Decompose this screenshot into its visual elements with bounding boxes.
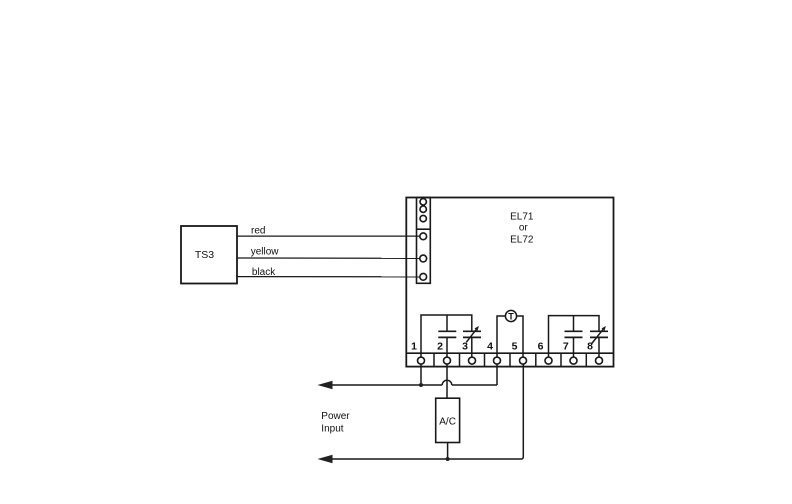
svg-text:EL72: EL72	[510, 235, 534, 246]
svg-text:black: black	[252, 267, 276, 278]
svg-text:or: or	[519, 222, 529, 233]
svg-text:8: 8	[587, 341, 593, 353]
svg-text:EL71: EL71	[510, 212, 534, 223]
svg-text:TS3: TS3	[195, 249, 214, 261]
svg-text:4: 4	[487, 341, 493, 353]
svg-text:red: red	[251, 226, 265, 237]
svg-text:1: 1	[411, 341, 417, 353]
svg-text:T: T	[508, 311, 514, 321]
svg-text:7: 7	[563, 341, 569, 353]
svg-text:5: 5	[512, 341, 518, 353]
svg-text:yellow: yellow	[251, 246, 280, 257]
svg-text:3: 3	[462, 341, 468, 353]
svg-text:Power: Power	[321, 411, 350, 422]
svg-text:A/C: A/C	[439, 417, 456, 428]
svg-text:2: 2	[437, 341, 443, 353]
svg-text:6: 6	[538, 341, 544, 353]
svg-text:Input: Input	[321, 424, 343, 435]
